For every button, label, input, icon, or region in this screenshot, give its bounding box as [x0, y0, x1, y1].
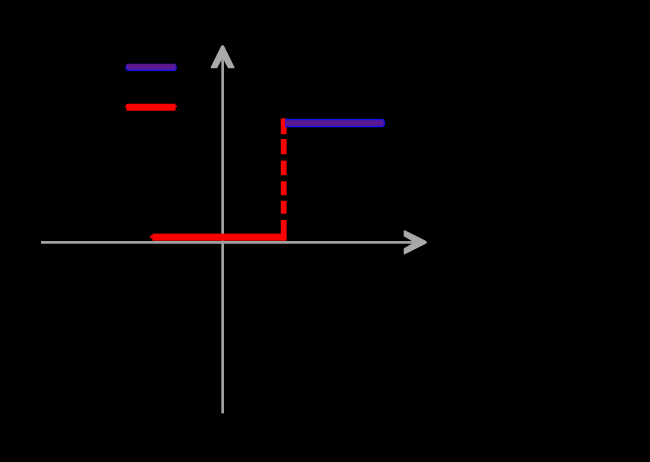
red step segment left cap nub — [150, 235, 153, 238]
red dashed jump line at the step — [281, 118, 287, 240]
legend red sample left cap nub — [125, 106, 127, 108]
legend: blue underlay of purple sample — [125, 64, 177, 71]
legend: purple line sample — [127, 64, 176, 70]
legend red sample right cap nub — [175, 106, 177, 108]
legend: red line sample — [126, 104, 175, 111]
red step segment (lower branch, y=0 left of jump) — [152, 234, 286, 241]
blue underlay of upper branch — [285, 119, 385, 127]
x-axis — [41, 241, 416, 244]
purple upper branch (y=1 right of jump) — [286, 120, 384, 126]
x-axis arrowhead — [404, 231, 426, 254]
y-axis — [221, 50, 224, 413]
y-axis arrowhead — [211, 46, 234, 68]
